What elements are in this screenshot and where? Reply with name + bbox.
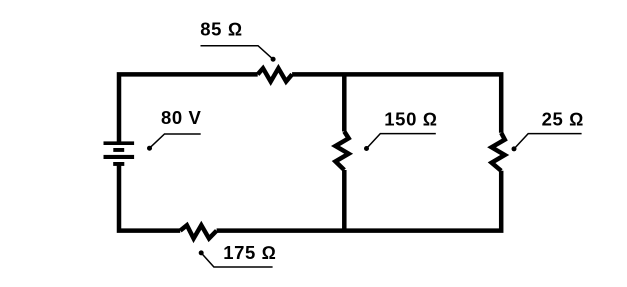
resistor R3 25 ohm zigzag on right wire bbox=[492, 133, 505, 171]
resistor R1 85 ohm zigzag on top wire bbox=[258, 68, 292, 81]
wire: left vertical (top part) + top wire left segment bbox=[119, 74, 258, 143]
leader for 25 ohm label bbox=[514, 134, 582, 149]
leader dot at resistor R1 bbox=[271, 57, 276, 62]
svg-text:80 V: 80 V bbox=[161, 107, 202, 128]
leader for 175 ohm label bbox=[201, 253, 272, 267]
wire: middle vertical top segment bbox=[342, 74, 347, 131]
leader dot at resistor R3 bbox=[512, 146, 517, 151]
resistor R2 150 ohm zigzag on middle wire bbox=[335, 132, 348, 171]
battery B1 long plate 1 bbox=[104, 141, 135, 145]
svg-text:175 Ω: 175 Ω bbox=[223, 242, 276, 263]
svg-text:85 Ω: 85 Ω bbox=[200, 19, 242, 40]
leader for 85 ohm label bbox=[201, 46, 273, 59]
leader dot at resistor R4 bbox=[199, 250, 204, 255]
leader for 80 V label bbox=[151, 134, 201, 147]
resistor R4 175 ohm zigzag on bottom wire bbox=[180, 225, 216, 238]
wire: middle vertical bottom segment bbox=[342, 170, 347, 231]
leader dot at battery bbox=[147, 146, 152, 151]
battery B1 long plate 2 bbox=[104, 155, 135, 159]
svg-text:25 Ω: 25 Ω bbox=[542, 109, 584, 130]
leader dot at resistor R2 bbox=[364, 146, 369, 151]
wire: right vertical bottom part + bottom wire right segment bbox=[217, 171, 502, 231]
wire: top wire right segment + right vertical top part bbox=[292, 74, 501, 132]
wire: bottom wire left segment + left vertical bottom part bbox=[119, 164, 180, 231]
svg-text:150 Ω: 150 Ω bbox=[384, 109, 437, 130]
leader for 150 ohm label bbox=[367, 134, 436, 149]
battery B1 short plate 1 bbox=[113, 148, 124, 152]
battery B1 short plate 2 bbox=[113, 162, 124, 166]
